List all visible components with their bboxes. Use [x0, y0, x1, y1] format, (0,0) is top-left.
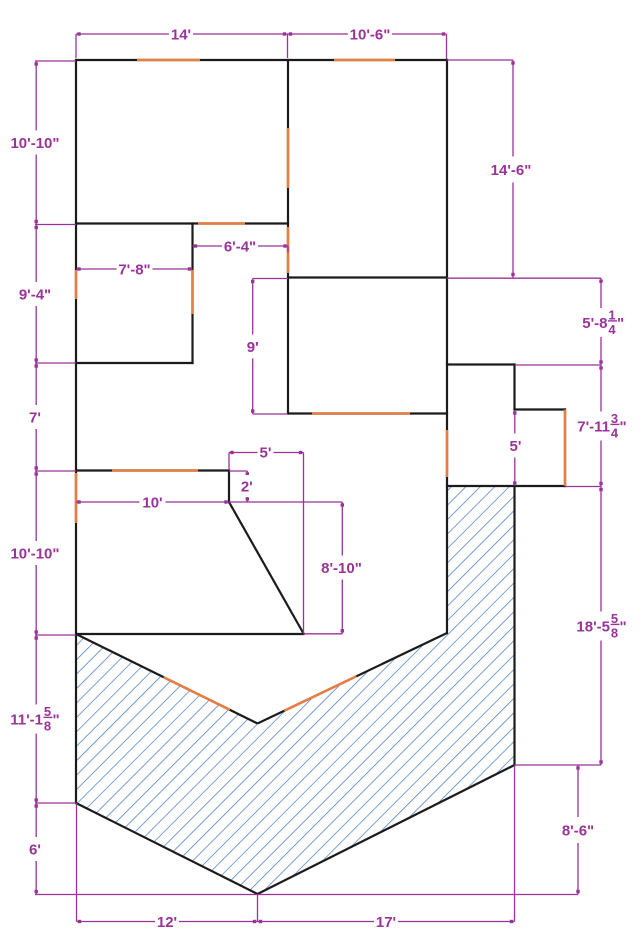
wall: chevron top-left diagonal — [76, 634, 258, 724]
dimension line 8'-6 (right) — [577, 765, 579, 895]
dimension line 10' — [76, 501, 229, 503]
dimension line 5'-8 1/4 (right chain) — [600, 278, 602, 365]
extension line y=894.5 long (6' bottom to 8'-6 line) — [35, 894, 578, 896]
wall: chevron bottom-left diagonal — [76, 803, 258, 894]
label 10'-6 — [348, 27, 392, 42]
label 7'-11 3/4 — [573, 412, 625, 441]
svg-text:": " — [617, 315, 624, 332]
extension line y=471 for 2' dim — [229, 470, 247, 472]
svg-text:4: 4 — [611, 425, 619, 440]
dimension line 7' (left chain 3) — [35, 363, 37, 471]
label 7'-8 — [117, 262, 153, 277]
label 6'-4 — [222, 239, 258, 254]
label 9' — [245, 335, 261, 359]
extension line y=60 right (to 14'-6 dim) — [447, 59, 514, 61]
wall: horizontal y=634 (lower-left room bottom) — [76, 633, 304, 635]
svg-text:8: 8 — [611, 625, 618, 640]
svg-text:18'-5: 18'-5 — [576, 618, 610, 635]
svg-text:12': 12' — [157, 914, 177, 931]
wall: chevron top-right diagonal — [258, 633, 448, 724]
dimension line 5' (vertical right) — [514, 410, 516, 486]
extension line x=257.5 bottom — [257, 894, 259, 922]
extension line y=278.2 right — [447, 277, 601, 279]
svg-text:7'-8": 7'-8" — [118, 261, 150, 278]
wall: horizontal y=363 (room2 bottom) — [76, 362, 193, 364]
svg-text:6'-4": 6'-4" — [224, 238, 256, 255]
svg-text:14'-6": 14'-6" — [491, 162, 532, 179]
extension line y=224.5 left — [35, 224, 76, 226]
opening (orange) on chevron top-left diagonal — [164, 677, 230, 710]
opening (orange) on x=76 wall upper — [75, 270, 78, 299]
dimension line 10'-6 (top) — [288, 33, 447, 35]
svg-text:9': 9' — [247, 339, 259, 356]
opening (orange) on x=447 wall — [446, 430, 449, 477]
dimension line 8'-10 — [341, 502, 343, 634]
dimension line 6'-4 — [193, 245, 289, 247]
extension line y=365 right — [515, 364, 602, 366]
extension line y=635 left — [35, 634, 76, 636]
wall: vertical x=288 — [287, 60, 289, 414]
opening (orange) on y=413.5 wall — [312, 412, 410, 415]
svg-text:14': 14' — [171, 26, 191, 43]
extension line y=486.5 right — [565, 486, 601, 488]
extension line y=633.8 for 8'-10 dim — [304, 633, 343, 635]
label 2' — [239, 475, 255, 497]
extension line y=502 (10' dim extended to 8'-10 dim) — [229, 501, 342, 503]
label 5' horizontal — [258, 445, 274, 460]
label 11'-1 5/8 — [7, 705, 59, 734]
dimension line 7'-11 3/4 (right chain) — [600, 365, 602, 487]
label 5' vertical — [508, 434, 524, 458]
wall: horizontal y=223.5 (room1 bottom) — [76, 222, 288, 224]
svg-text:2': 2' — [241, 478, 253, 495]
svg-text:8'-10": 8'-10" — [321, 560, 362, 577]
svg-text:5': 5' — [510, 438, 522, 455]
label 6' left — [27, 837, 43, 861]
extension line x=287.5 top — [287, 34, 289, 58]
svg-text:1: 1 — [608, 307, 615, 322]
label 10'-10 upper — [8, 131, 62, 155]
opening (orange) top wall right — [334, 59, 395, 62]
dimension line 14' (top) — [76, 33, 288, 35]
svg-text:5': 5' — [260, 444, 272, 461]
dimension line 7'-8 — [76, 268, 193, 270]
dimension line 18'-5 5/8 (right chain) — [600, 487, 602, 766]
dimension line 9'-4 (left chain 2) — [35, 225, 37, 364]
wall: vertical x=514.5 upper — [513, 365, 515, 410]
wall: vertical x=447 — [446, 60, 448, 633]
wall: horizontal y=486 (right room bottom) — [447, 485, 565, 487]
svg-text:3: 3 — [611, 411, 618, 426]
extension line y=765 right — [515, 764, 602, 766]
label 10' — [140, 495, 166, 510]
svg-text:9'-4": 9'-4" — [19, 286, 51, 303]
label 5'-8 1/4 — [578, 308, 624, 337]
extension line x=76.5 bottom — [76, 803, 78, 922]
opening (orange) on x=192.5 wall — [191, 270, 194, 314]
svg-text:": " — [620, 418, 627, 435]
dimension line 5' (horizontal) — [229, 452, 304, 454]
svg-text:11'-1: 11'-1 — [10, 711, 43, 728]
svg-text:": " — [620, 618, 627, 635]
svg-text:7': 7' — [29, 409, 41, 426]
dimension line 14'-6 (right) — [512, 60, 514, 278]
svg-text:4: 4 — [608, 322, 616, 337]
wall: horizontal y=364.5 (right mid) — [447, 363, 515, 365]
extension line y=363 left — [35, 362, 76, 364]
svg-text:10'-10": 10'-10" — [10, 545, 59, 562]
dimension line 2' — [246, 471, 248, 502]
svg-text:": " — [53, 711, 60, 728]
label 10'-10 lower — [8, 541, 62, 565]
opening (orange) x=565 wall full — [564, 410, 567, 487]
dimension line 12' (bottom) — [77, 921, 258, 923]
opening (orange) on x=288 wall upper — [287, 128, 290, 188]
label 7' — [27, 405, 43, 429]
extension line y=803 left — [35, 802, 76, 804]
opening (orange) on x=288 wall lower — [287, 227, 290, 273]
dimension line 17' (bottom) — [258, 921, 515, 923]
wall: top exterior y=60 — [76, 59, 447, 61]
extension line x=76 top — [75, 34, 77, 58]
extension line x=229 for 5' dim — [228, 453, 230, 471]
hatched region (blue diagonal fill): stair/deck chevron and right band — [76, 486, 515, 894]
dimension line 11'-1 5/8 (left chain 5) — [35, 635, 37, 803]
wall: left exterior x=76 — [75, 60, 77, 803]
label 12' — [155, 914, 179, 929]
svg-text:5: 5 — [611, 611, 618, 626]
label 18'-5 5/8 — [575, 612, 625, 641]
extension line x=514.5 bottom — [514, 765, 516, 922]
extension line y=471 left — [35, 470, 76, 472]
dimension line 10'-10 (left chain 1) — [35, 61, 37, 225]
wall: vertical x=514.5 band right edge — [513, 486, 515, 765]
svg-text:5: 5 — [44, 704, 51, 719]
label 14' — [169, 27, 193, 42]
svg-text:8'-6": 8'-6" — [562, 822, 594, 839]
extension line x=303.5 (5' dim to diagonal end) — [303, 453, 305, 634]
wall: vertical x=229 notch — [228, 471, 230, 503]
svg-text:17': 17' — [376, 914, 396, 931]
wall: vertical x=192.5 — [191, 224, 193, 364]
dimension line 9' — [252, 279, 254, 415]
wall: horizontal y=413.5 (big middle room bottom) — [288, 412, 447, 414]
label 14'-6 — [489, 157, 533, 183]
svg-text:10'-6": 10'-6" — [350, 26, 391, 43]
wall: horizontal y=277.5 (top-right room bottom) — [288, 276, 447, 278]
opening (orange) top wall left — [137, 59, 200, 62]
opening (orange) on x=76 wall lower — [75, 473, 78, 523]
extension line y=278.5 for 9' dim — [253, 278, 288, 280]
svg-text:10'-10": 10'-10" — [10, 135, 59, 152]
wall: vertical x=565 — [564, 410, 566, 487]
wall: horizontal y=470.5 (lower-left room top) — [76, 469, 229, 471]
svg-text:7'-11: 7'-11 — [577, 418, 610, 435]
extension line x=446.5 top — [446, 34, 448, 59]
label 17' — [374, 914, 398, 929]
svg-text:8: 8 — [44, 718, 51, 733]
svg-text:5'-8: 5'-8 — [582, 315, 607, 332]
extension stub x=288 below 6'-4 dim — [287, 246, 289, 253]
dimension line 6' (left chain 6) — [35, 803, 37, 895]
label 9'-4 — [16, 282, 54, 306]
opening (orange) on y=223.5 wall — [198, 222, 245, 225]
extension line y=414 for 9' dim — [253, 413, 288, 415]
svg-text:10': 10' — [142, 494, 162, 511]
label 8'-10 — [320, 556, 364, 580]
svg-text:6': 6' — [29, 841, 41, 858]
dimension line 10'-10 (left chain 4) — [35, 471, 37, 635]
wall: diagonal notch (229,502)-(303.5,633.5) — [229, 502, 304, 634]
extension line y=61 left — [35, 60, 76, 62]
wall: horizontal y=409.5 (small right room top) — [515, 408, 566, 410]
opening (orange) on y=470.5 wall — [112, 469, 198, 472]
wall: chevron bottom-right diagonal — [258, 765, 515, 894]
label 8'-6 — [559, 817, 597, 843]
opening (orange) on chevron top-right diagonal — [284, 676, 356, 710]
